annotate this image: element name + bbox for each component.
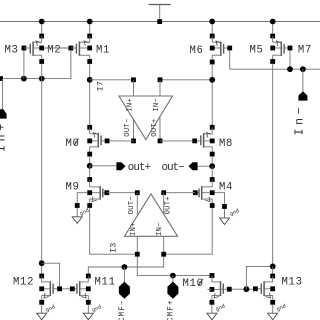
wire M12 drain column bbox=[41, 79, 43, 274]
label gnd at M12 bbox=[45, 304, 56, 313]
wire out- tap bbox=[198, 165, 213, 167]
label M11 bbox=[95, 276, 116, 288]
svg-text:M9: M9 bbox=[66, 181, 80, 193]
svg-text:OUT−: OUT− bbox=[124, 118, 132, 136]
terminal CMF- diamond bbox=[119, 282, 130, 299]
wire U2 IN- pin bbox=[163, 236, 165, 254]
pin U1 OUT- square bbox=[131, 139, 136, 144]
label U2 OUT+ bbox=[165, 196, 173, 214]
wire M13 diode connection bbox=[246, 266, 272, 289]
junction top rail / M6 branch bbox=[209, 19, 215, 25]
junction M5 column / M13 drain bbox=[270, 264, 276, 270]
wire In- node rail (right) bbox=[230, 68, 320, 70]
label M6 bbox=[190, 45, 204, 57]
junction In+ rail / M2 drain bbox=[39, 76, 45, 82]
svg-text:M5: M5 bbox=[250, 45, 264, 57]
wire M2 drain to M1 gate bbox=[44, 47, 69, 49]
svg-text:M4: M4 bbox=[219, 181, 233, 193]
terminal In+ arrow bbox=[0, 109, 7, 118]
svg-text:I3: I3 bbox=[109, 242, 118, 252]
wire M11 source to ground bbox=[87, 305, 89, 314]
label gnd at M13 bbox=[276, 303, 287, 312]
junction top rail / M1 branch bbox=[87, 19, 93, 25]
svg-text:M6: M6 bbox=[190, 45, 204, 57]
wire U2 IN+ pin bbox=[136, 236, 138, 254]
wire M11 drain to CMF- to U2 IN- bbox=[88, 257, 163, 274]
wire out+ node to M9 drain bbox=[89, 166, 91, 178]
ground symbol at M11 bbox=[83, 313, 93, 320]
wire In+ node rail (left) bbox=[0, 48, 71, 79]
wire M13 drain stub bbox=[272, 266, 274, 273]
label U2 IN- bbox=[156, 222, 164, 236]
transistor M13 bbox=[253, 274, 275, 305]
label U1 OUT- bbox=[124, 118, 132, 136]
svg-text:IN−: IN− bbox=[153, 98, 161, 112]
svg-text:In−: In− bbox=[294, 103, 307, 135]
junction CMF+ tap bbox=[170, 273, 176, 279]
wire M13 source to ground bbox=[272, 305, 274, 314]
svg-text:M7: M7 bbox=[298, 44, 312, 56]
wire M12 diode connection bbox=[42, 263, 60, 286]
svg-text:M2: M2 bbox=[47, 44, 61, 56]
wire VDD top rail bbox=[0, 21, 320, 23]
transistor M5 bbox=[270, 34, 292, 64]
junction M12 diode tap bbox=[39, 260, 45, 266]
svg-text:IN+: IN+ bbox=[126, 98, 134, 112]
svg-text:M11: M11 bbox=[95, 276, 116, 288]
transistor M4 bbox=[193, 177, 215, 208]
svg-text:CMF+: CMF+ bbox=[168, 299, 176, 320]
wire U1 IN+ pin bbox=[133, 80, 135, 96]
wire CMF- stub bbox=[123, 267, 125, 282]
wire U2 OUT- pin bbox=[136, 193, 138, 216]
wire M9 source to U2 IN+ bbox=[90, 208, 140, 257]
label In+ bbox=[0, 120, 9, 152]
wire M6 gate to right rail bbox=[229, 50, 231, 69]
label U1 OUT+ bbox=[151, 118, 159, 136]
label M5 bbox=[250, 45, 264, 57]
label M8 bbox=[219, 138, 233, 150]
transistor M2 bbox=[30, 34, 44, 64]
label M3 bbox=[5, 44, 19, 56]
ground symbol at M4 bbox=[220, 218, 230, 225]
label U2 IN+ bbox=[130, 222, 138, 236]
svg-text:I7: I7 bbox=[96, 81, 105, 91]
junction In+ rail at left edge bbox=[0, 76, 3, 81]
label gnd at M4 bbox=[229, 208, 240, 217]
wire M10/M13 gate bias line bbox=[221, 287, 254, 292]
wire CMF+ stub bbox=[172, 276, 174, 282]
svg-text:OUT+: OUT+ bbox=[151, 118, 159, 136]
wire M4 gate to U2 OUT+ bbox=[164, 192, 196, 194]
junction out+ node bbox=[87, 163, 93, 169]
op-amp U1 (CMFB amp, top) bbox=[119, 96, 173, 140]
junction M1 drain / U1 wire bbox=[87, 77, 93, 83]
wire U2 IN+ to CMF+ to M10 drain bbox=[137, 257, 209, 276]
wire M5 gate riser to rail bbox=[289, 50, 291, 69]
junction M6 drain / U1 wire bbox=[209, 77, 215, 83]
svg-text:M8: M8 bbox=[219, 138, 233, 150]
label gnd at M9 bbox=[79, 208, 90, 217]
wire M4 source to U2 IN- bbox=[161, 208, 212, 257]
wire M0 source column bbox=[89, 156, 91, 166]
svg-text:out+: out+ bbox=[128, 162, 151, 174]
junction In+ rail / M3 gate wire bbox=[21, 76, 27, 82]
label U1 IN- bbox=[153, 98, 161, 112]
junction right rail / M5 gate bbox=[287, 66, 293, 72]
terminal In- arrow bbox=[298, 91, 307, 100]
junction right rail / In- stub bbox=[300, 66, 306, 72]
label M13 bbox=[282, 276, 303, 288]
transistor M12 bbox=[39, 274, 62, 305]
wire M1 drain column bbox=[89, 24, 91, 125]
label M12 bbox=[13, 276, 34, 288]
pin M3/M2 gate square bbox=[22, 46, 31, 51]
wire M10 source to ground bbox=[211, 305, 213, 314]
pin M10 drain square bbox=[210, 273, 215, 278]
junction top rail / M2 branch bbox=[39, 19, 45, 25]
label M4 bbox=[219, 181, 233, 193]
junction top rail / M5 branch bbox=[270, 19, 276, 25]
junction CMF- tap bbox=[122, 264, 128, 270]
label out+ bbox=[128, 162, 151, 174]
transistor M1 bbox=[76, 34, 92, 64]
wire M9 gate to U2 OUT- bbox=[107, 192, 138, 194]
ground symbol at M12 bbox=[37, 313, 47, 320]
label CMF+ bbox=[168, 299, 176, 320]
terminal out+ arrow bbox=[116, 162, 125, 170]
svg-text:M10: M10 bbox=[183, 278, 204, 290]
terminal out- arrow bbox=[189, 162, 198, 170]
wire M5 drain long column to M13 bbox=[272, 24, 274, 264]
svg-text:IN+: IN+ bbox=[130, 222, 138, 236]
label M7 bbox=[298, 44, 312, 56]
label U2 OUT- bbox=[128, 196, 136, 214]
wire U1 OUT- to M0 gate bbox=[107, 140, 133, 142]
pin U1 IN+ square bbox=[131, 77, 136, 82]
junction out- node bbox=[209, 163, 215, 169]
transistor M8 bbox=[192, 125, 214, 157]
pin U2 OUT+ square bbox=[161, 190, 166, 195]
transistor M6 bbox=[210, 34, 232, 65]
wire M2 contacts column bbox=[41, 24, 43, 79]
wire U2 OUT+ pin bbox=[163, 193, 165, 215]
power VDD supply symbol bbox=[149, 5, 171, 22]
transistor M11 bbox=[70, 274, 91, 305]
label M2 bbox=[47, 44, 61, 56]
svg-text:M1: M1 bbox=[96, 44, 110, 56]
pin U1 OUT+ square bbox=[158, 139, 163, 144]
wire U1 OUT+ to M8 gate bbox=[160, 140, 195, 142]
label out- bbox=[162, 162, 185, 174]
pin M10 gate stub bbox=[207, 288, 212, 290]
pin U2 OUT- square bbox=[135, 190, 140, 195]
terminal CMF+ diamond bbox=[167, 282, 178, 299]
wire U1 IN+ feed bbox=[90, 79, 134, 81]
ground symbol at M10 bbox=[207, 313, 217, 320]
label M1 bbox=[96, 44, 110, 56]
pin U1 IN- square bbox=[158, 77, 163, 82]
wire In- input stub bbox=[302, 69, 304, 91]
svg-text:M13: M13 bbox=[282, 276, 303, 288]
wire U1 OUT- pin bbox=[133, 118, 135, 141]
transistor M0 bbox=[87, 125, 109, 157]
wire U1 IN- pin bbox=[159, 80, 161, 96]
svg-text:M12: M12 bbox=[13, 276, 34, 288]
junction VDD stub on rail bbox=[157, 19, 162, 24]
junction M13 diode tap bbox=[244, 286, 250, 292]
label In- bbox=[294, 103, 307, 135]
wire M9 bulk to gnd tap bbox=[75, 193, 88, 217]
label M9 bbox=[66, 181, 80, 193]
wire M6 drain column bbox=[211, 24, 213, 125]
wire M3 gate riser bbox=[23, 48, 25, 79]
transistor M9 bbox=[87, 177, 109, 208]
label U1 IN+ bbox=[126, 98, 134, 112]
pin M1 gate square bbox=[69, 46, 77, 51]
wire M4 bulk to gnd tap bbox=[215, 193, 227, 218]
op-amp U2 (CMFB amp, bottom) bbox=[124, 194, 177, 236]
svg-text:out−: out− bbox=[162, 162, 185, 174]
wire U1 OUT+ pin bbox=[159, 118, 161, 141]
label CMF- bbox=[119, 299, 127, 320]
svg-text:In+: In+ bbox=[0, 120, 9, 152]
svg-text:CMF−: CMF− bbox=[119, 299, 127, 320]
wire M8 source column bbox=[211, 156, 213, 166]
wire M12 gate to M11 gate bbox=[62, 288, 70, 290]
label gnd at M11 bbox=[91, 304, 102, 313]
wire out+ tap bbox=[90, 165, 117, 167]
wire U1 IN- feed bbox=[160, 79, 212, 81]
svg-text:OUT−: OUT− bbox=[128, 196, 136, 214]
transistor M10 bbox=[210, 273, 224, 304]
ground symbol at M9 bbox=[72, 217, 82, 224]
svg-text:IN−: IN− bbox=[156, 222, 164, 236]
label I3 bbox=[109, 242, 118, 252]
wire M12 source to ground bbox=[41, 305, 43, 314]
svg-text:M3: M3 bbox=[5, 44, 19, 56]
label M10 bbox=[183, 278, 204, 290]
wire In+ input stub bbox=[1, 79, 3, 110]
label I7 bbox=[96, 81, 105, 91]
label M0 bbox=[66, 138, 80, 150]
svg-text:OUT+: OUT+ bbox=[165, 196, 173, 214]
wire out- node to M4 drain bbox=[211, 166, 213, 177]
label gnd at M10 bbox=[215, 303, 226, 312]
ground symbol at M13 bbox=[268, 313, 278, 320]
